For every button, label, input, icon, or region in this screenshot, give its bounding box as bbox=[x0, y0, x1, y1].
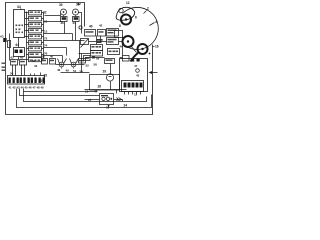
svg-text:44: 44 bbox=[34, 64, 38, 68]
box left of roller2 bbox=[115, 31, 123, 38]
mixer stubs bbox=[62, 68, 74, 69]
guide roller 3 bbox=[138, 44, 148, 54]
label 72 bbox=[44, 37, 48, 41]
label 4 bbox=[155, 20, 157, 24]
mixer Mx1 bbox=[59, 62, 64, 67]
label 42c bbox=[99, 24, 103, 28]
svg-text:42: 42 bbox=[99, 24, 103, 28]
wire M2 right bbox=[79, 13, 82, 27]
block b4 heads bbox=[108, 49, 120, 55]
junction dot bbox=[108, 105, 110, 107]
block small 122 bbox=[123, 56, 130, 62]
svg-text:20: 20 bbox=[88, 98, 92, 102]
wire outer frame bbox=[6, 3, 153, 115]
label 18 bbox=[85, 90, 89, 94]
svg-text:40: 40 bbox=[89, 25, 93, 29]
sub box transistor region bbox=[90, 75, 120, 91]
wire y53 bbox=[79, 53, 91, 55]
label 19 bbox=[106, 106, 110, 110]
svg-text:42: 42 bbox=[136, 74, 140, 78]
wire servo links bbox=[89, 37, 123, 56]
EQ box bbox=[100, 94, 114, 105]
label 20c bbox=[88, 98, 92, 102]
label 34 bbox=[17, 5, 21, 9]
block B34 bbox=[14, 10, 25, 38]
text marks cluster bbox=[97, 39, 103, 43]
label 24 bbox=[124, 104, 128, 108]
svg-text:49: 49 bbox=[41, 86, 45, 90]
label 74 bbox=[44, 44, 48, 48]
block column row6 bbox=[29, 41, 42, 45]
label 44 bbox=[34, 64, 38, 68]
svg-text:38: 38 bbox=[42, 55, 46, 59]
wire bus y95 bbox=[20, 89, 100, 96]
label 30 bbox=[59, 3, 63, 7]
label 64 bbox=[16, 43, 20, 47]
text inside B34 bbox=[16, 25, 24, 34]
wire x81 down bbox=[81, 54, 83, 73]
svg-text:72: 72 bbox=[44, 37, 48, 41]
wire bus2 bbox=[17, 89, 152, 108]
small circle lever bbox=[119, 8, 123, 12]
component on left frame bbox=[3, 38, 6, 42]
block servo upper bbox=[107, 29, 119, 37]
block column row8 bbox=[29, 53, 42, 57]
wire y72 long bbox=[61, 72, 90, 74]
wire right bus x43 bbox=[42, 13, 44, 60]
block AGC bbox=[85, 30, 96, 37]
label 58 bbox=[94, 63, 98, 67]
label 76 bbox=[44, 52, 48, 56]
label 31 bbox=[44, 20, 48, 24]
block column row1 bbox=[29, 11, 42, 15]
svg-text:29: 29 bbox=[103, 70, 107, 74]
label 51 bbox=[73, 69, 77, 73]
drum big circle bbox=[123, 7, 159, 49]
small circle in right box bbox=[136, 69, 140, 73]
pin strip bbox=[8, 76, 45, 85]
wire M1 down bbox=[63, 16, 65, 17]
svg-text:12: 12 bbox=[44, 30, 48, 34]
right big box bbox=[120, 59, 148, 92]
svg-text:50: 50 bbox=[10, 72, 14, 76]
block servo lower bbox=[107, 38, 119, 45]
label 36b bbox=[32, 59, 36, 63]
svg-text:8: 8 bbox=[119, 24, 121, 28]
tape mark dot bbox=[149, 53, 151, 55]
block next bbox=[98, 30, 106, 37]
label 47c bbox=[134, 64, 138, 68]
block b2 lower bbox=[91, 51, 103, 57]
node circle bbox=[79, 26, 82, 29]
label 34m bbox=[73, 21, 77, 25]
lever blob bbox=[116, 7, 135, 20]
label 12 bbox=[44, 30, 48, 34]
label 50b bbox=[80, 70, 84, 74]
svg-text:49: 49 bbox=[66, 69, 70, 73]
svg-text:52: 52 bbox=[86, 64, 90, 68]
label 36 bbox=[76, 3, 80, 7]
label 16 bbox=[155, 45, 159, 49]
mark g2 bbox=[92, 56, 95, 59]
head connector box bbox=[122, 81, 144, 92]
wire y99 bbox=[85, 100, 123, 102]
svg-text:12: 12 bbox=[126, 1, 130, 5]
svg-text:20: 20 bbox=[41, 79, 45, 83]
connector ticks down bbox=[125, 92, 141, 95]
label 40 bbox=[89, 25, 93, 29]
wire y89 ext bbox=[85, 89, 127, 91]
relay box 64 bbox=[14, 48, 25, 57]
small box left wire bbox=[8, 41, 11, 48]
wires sw boxes down bbox=[13, 65, 25, 76]
motor M1 bbox=[61, 9, 67, 15]
svg-text:25: 25 bbox=[44, 74, 48, 78]
label 2 bbox=[147, 7, 149, 11]
svg-text:16: 16 bbox=[155, 45, 159, 49]
block column row7 bbox=[29, 47, 42, 51]
wire y57.5 bbox=[87, 57, 123, 59]
transistor Q1 bbox=[106, 74, 113, 81]
label 47b bbox=[94, 90, 98, 94]
label 50 strip bbox=[10, 72, 14, 76]
label 52 bbox=[86, 64, 90, 68]
wire drivers down bbox=[65, 22, 76, 41]
svg-text:12: 12 bbox=[134, 93, 138, 97]
svg-text:74: 74 bbox=[44, 44, 48, 48]
wire bus top y91 bbox=[24, 91, 98, 93]
svg-text:31: 31 bbox=[44, 20, 48, 24]
svg-text:2: 2 bbox=[147, 7, 149, 11]
block sw row F bbox=[50, 59, 56, 65]
leader slash bbox=[81, 39, 89, 48]
svg-text:30: 30 bbox=[59, 3, 63, 7]
svg-text:36: 36 bbox=[76, 3, 80, 7]
label 20a bbox=[41, 79, 45, 83]
svg-text:56: 56 bbox=[96, 57, 100, 61]
label 8 bbox=[119, 24, 121, 28]
wire cluster verticals bbox=[97, 36, 117, 94]
svg-text:24: 24 bbox=[124, 104, 128, 108]
label 63 bbox=[0, 35, 4, 39]
block column row9 bbox=[29, 58, 42, 62]
label 62 bbox=[11, 56, 15, 60]
mixer Mx2 bbox=[71, 62, 76, 67]
wire left small bbox=[9, 34, 11, 61]
driver box M1 bbox=[61, 17, 68, 22]
svg-text:34: 34 bbox=[17, 5, 21, 9]
svg-text:47: 47 bbox=[134, 64, 138, 68]
wire verticals mid bbox=[63, 34, 80, 63]
wire stubs B34 to column bbox=[25, 13, 29, 60]
block D bbox=[79, 59, 86, 64]
wire M2 down bbox=[75, 16, 77, 17]
svg-text:46: 46 bbox=[57, 68, 61, 72]
block sw row left B bbox=[20, 60, 27, 66]
svg-text:34: 34 bbox=[73, 21, 77, 25]
label 12t bbox=[126, 1, 130, 5]
label 40f bbox=[50, 55, 54, 59]
wire mixer line bbox=[56, 64, 85, 66]
block column row3 bbox=[29, 23, 42, 27]
marks in right box bbox=[131, 59, 140, 62]
tape arrow left bbox=[150, 72, 158, 74]
label 46 bbox=[57, 68, 61, 72]
wire y20 bbox=[44, 21, 63, 23]
motor M2 bbox=[73, 9, 79, 15]
wire bus3 bbox=[24, 89, 147, 102]
svg-text:40: 40 bbox=[50, 55, 54, 59]
label 46c bbox=[120, 45, 124, 49]
arm dark bbox=[131, 53, 139, 62]
block column row5 bbox=[29, 35, 42, 39]
guide roller 1 bbox=[121, 15, 131, 25]
svg-text:58: 58 bbox=[94, 63, 98, 67]
label 38m bbox=[61, 21, 65, 25]
label 25 bbox=[44, 74, 48, 78]
svg-text:62: 62 bbox=[11, 56, 15, 60]
block sw row left A bbox=[11, 60, 18, 66]
svg-text:36: 36 bbox=[32, 59, 36, 63]
svg-text:47: 47 bbox=[94, 90, 98, 94]
driver box M2 bbox=[73, 17, 80, 22]
guide roller 2 bbox=[123, 36, 134, 47]
block g1 bbox=[84, 56, 91, 61]
tiny text col far left bbox=[2, 63, 7, 71]
label 29 bbox=[103, 70, 107, 74]
mixer legs bbox=[58, 59, 79, 64]
svg-text:32: 32 bbox=[43, 11, 47, 15]
svg-text:38: 38 bbox=[61, 21, 65, 25]
svg-text:6: 6 bbox=[135, 16, 137, 20]
svg-text:63: 63 bbox=[0, 35, 4, 39]
block b2 bbox=[91, 45, 103, 51]
block column row4 bbox=[29, 29, 42, 33]
label 32 bbox=[43, 11, 47, 15]
label 56 bbox=[96, 57, 100, 61]
label 127 bbox=[134, 93, 138, 97]
pin numbers bbox=[9, 86, 45, 90]
wire x81 down join bbox=[81, 27, 83, 34]
wire grid mid bbox=[44, 34, 85, 56]
svg-text:4: 4 bbox=[155, 20, 157, 24]
label 38e bbox=[42, 55, 46, 59]
svg-text:18: 18 bbox=[85, 90, 89, 94]
svg-text:60: 60 bbox=[20, 56, 24, 60]
svg-text:26: 26 bbox=[98, 85, 102, 89]
wire to motors bbox=[45, 14, 61, 16]
block pre-amp bbox=[105, 59, 115, 64]
wire left bus x26 bbox=[26, 12, 28, 60]
label 6 bbox=[135, 16, 137, 20]
wire B34 to relay bbox=[18, 38, 20, 61]
label 60 bbox=[20, 56, 24, 60]
label 49 bbox=[66, 69, 70, 73]
label 32tr bbox=[78, 2, 82, 6]
label 42 bbox=[136, 74, 140, 78]
label 26 bbox=[98, 85, 102, 89]
wire x40 down bbox=[31, 73, 41, 76]
block b1 bbox=[81, 39, 89, 45]
block column row2 bbox=[29, 17, 42, 21]
text marks in column blocks bbox=[30, 12, 41, 61]
block sw row E bbox=[42, 59, 48, 65]
